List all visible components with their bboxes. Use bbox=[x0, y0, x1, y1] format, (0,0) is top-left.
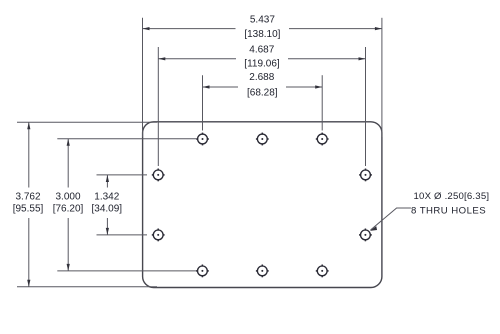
extension line bottom hole row left bbox=[57, 270, 196, 272]
extension line last top hole bbox=[321, 75, 323, 130]
hole H3 top row right bbox=[316, 133, 329, 146]
extension line plate bottom edge left bbox=[17, 286, 157, 288]
svg-text:1.342: 1.342 bbox=[94, 192, 119, 203]
svg-text:[95.55]: [95.55] bbox=[13, 204, 44, 215]
dimension 4.687 [119.06] hole column span bbox=[158, 44, 365, 71]
hole H1 top row left bbox=[196, 133, 209, 146]
svg-text:2.688: 2.688 bbox=[249, 72, 274, 83]
leader to hole note bbox=[370, 208, 411, 233]
svg-text:3.000: 3.000 bbox=[55, 192, 80, 203]
svg-text:[34.09]: [34.09] bbox=[92, 204, 123, 215]
extension line first top hole bbox=[202, 75, 204, 130]
svg-text:4.687: 4.687 bbox=[249, 44, 274, 55]
extension line right plate edge up bbox=[381, 18, 383, 137]
hole H5 row2 right bbox=[359, 169, 372, 182]
svg-text:[119.06]: [119.06] bbox=[244, 58, 280, 69]
hole H2 top row middle bbox=[256, 133, 269, 146]
dimension 1.342 [34.09] mid hole spacing bbox=[89, 175, 126, 235]
svg-text:[68.28]: [68.28] bbox=[247, 87, 278, 98]
dimension 2.688 [68.28] top hole spacing bbox=[203, 72, 323, 99]
extension line top hole row left bbox=[57, 138, 196, 140]
svg-text:[76.20]: [76.20] bbox=[53, 204, 84, 215]
hole H8 bottom row left bbox=[196, 265, 209, 278]
hole H9 bottom row middle bbox=[256, 265, 269, 278]
extension line right hole column bbox=[365, 47, 367, 166]
extension line mid hole row 2 left bbox=[97, 174, 148, 176]
dimension 3.000 [76.20] hole row span bbox=[50, 139, 87, 271]
hole H10 bottom row right bbox=[316, 265, 329, 278]
hole H7 row3 right bbox=[359, 229, 372, 242]
svg-text:5.437: 5.437 bbox=[250, 14, 275, 25]
dimension 5.437 [138.10] overall width bbox=[143, 14, 382, 40]
extension line plate top edge left bbox=[17, 121, 157, 123]
extension line left hole column bbox=[157, 47, 159, 166]
plate outline bbox=[143, 122, 382, 288]
svg-text:10X Ø .250[6.35]: 10X Ø .250[6.35] bbox=[414, 191, 490, 202]
hole H6 row3 left bbox=[152, 229, 165, 242]
svg-text:8 THRU HOLES: 8 THRU HOLES bbox=[411, 205, 486, 216]
note text hole size bbox=[411, 191, 489, 216]
extension line mid hole row 3 left bbox=[97, 234, 148, 236]
dimension 3.762 [95.55] overall height bbox=[10, 122, 47, 287]
hole H4 row2 left bbox=[152, 169, 165, 182]
svg-text:[138.10]: [138.10] bbox=[244, 29, 280, 40]
extension line left plate edge up bbox=[142, 18, 144, 137]
svg-text:3.762: 3.762 bbox=[15, 192, 40, 203]
